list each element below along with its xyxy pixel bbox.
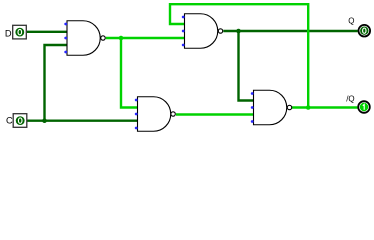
input pin C — [13, 114, 27, 128]
svg-text:Q: Q — [348, 17, 354, 26]
U4 floating input dots — [251, 92, 254, 123]
node U4 output junction — [306, 105, 311, 110]
wire U3 output to Q — [223, 30, 357, 32]
wire C pin to U2 — [27, 119, 138, 121]
wire D pin to U1 — [27, 31, 67, 33]
svg-text:/Q: /Q — [346, 95, 354, 104]
input pin D — [13, 25, 27, 39]
node U3 output junction — [236, 29, 241, 34]
U1 floating input dots — [64, 23, 67, 54]
wire U3 output down to U4 input — [239, 31, 255, 101]
wire U2 output to U4 input — [176, 113, 254, 115]
U2 floating input dots — [135, 99, 138, 130]
node C junction — [42, 118, 47, 123]
wire U1 output to U3 input — [106, 37, 185, 39]
svg-text:C: C — [6, 116, 13, 126]
wire U4 output to notQ — [292, 106, 357, 108]
node U1 output junction — [119, 36, 124, 41]
output pin Q — [359, 25, 371, 37]
output pin notQ — [358, 101, 370, 113]
wire C branch to U1 — [45, 45, 68, 121]
nand gate U3 — [185, 14, 223, 49]
nand gate U4 — [254, 90, 292, 125]
U3 floating input dots — [182, 16, 185, 47]
nand gate U1 — [67, 21, 105, 56]
wire U4 feedback to U3 input — [170, 4, 308, 107]
svg-text:D: D — [5, 29, 12, 39]
wire U1 output down to U2 input — [121, 38, 138, 108]
nand gate U2 — [138, 97, 176, 132]
